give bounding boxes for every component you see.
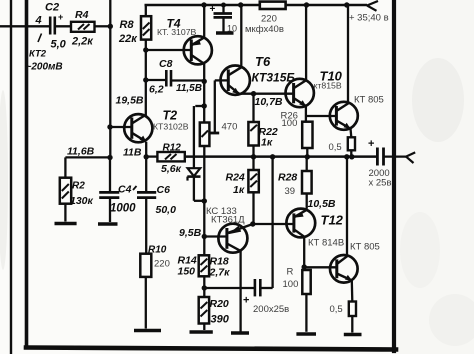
svg-text:Т2: Т2 — [163, 109, 178, 123]
svg-text:0,5: 0,5 — [330, 304, 343, 315]
svg-text:КТ3102В: КТ3102В — [153, 122, 189, 132]
resistor R4 2,2к — [71, 22, 95, 32]
svg-text:КТ 814В: КТ 814В — [308, 238, 344, 249]
junction: rail / R26-R28 — [305, 154, 310, 159]
capacitor 10мкф (rail decoupling) — [214, 5, 233, 32]
svg-text:+ 35;40 в: + 35;40 в — [349, 13, 389, 24]
wire: to T2 base — [110, 126, 132, 128]
wire: T4 base — [146, 49, 192, 51]
svg-text:мкфх40в: мкфх40в — [245, 24, 284, 35]
wire: T6 base with end bar — [210, 80, 228, 133]
resistor R12 5,6к — [157, 152, 184, 161]
svg-text:+: + — [368, 138, 374, 150]
svg-text:Т12: Т12 — [321, 213, 344, 228]
svg-text:С4: С4 — [118, 184, 132, 196]
svg-text:470: 470 — [222, 122, 238, 133]
svg-text:С6: С6 — [157, 184, 171, 196]
junction: rail / bootstrap — [270, 154, 275, 159]
capacitor C6 50,0 — [137, 157, 156, 254]
svg-text:С2: С2 — [45, 2, 59, 14]
wire: T4 collector down to 470 — [203, 63, 205, 122]
svg-text:9,5В: 9,5В — [179, 227, 202, 239]
wire: 470 down through rail to T8 base node — [203, 146, 205, 255]
zener КС133 — [187, 106, 204, 201]
ground: under C4 — [98, 222, 118, 226]
svg-text:10,5В: 10,5В — [308, 198, 336, 210]
frame lines (decorative, unlabeled) — [10, 0, 12, 354]
svg-text:100: 100 — [282, 118, 298, 129]
svg-text:22к: 22к — [118, 33, 138, 45]
capacitor C2 — [50, 17, 55, 35]
transistor КТ805 (upper) — [330, 102, 358, 130]
svg-text:2,7к: 2,7к — [209, 267, 231, 279]
svg-text:R8: R8 — [120, 19, 135, 31]
transistor T12 КТ814В — [286, 209, 315, 238]
junction: zener bottom — [202, 198, 207, 203]
wire: T8 collector to ground — [239, 251, 241, 332]
resistor R14 150 / R18 2,7к — [199, 255, 209, 297]
transistor КТ805 (lower) — [330, 255, 358, 283]
ground: under R2 — [55, 222, 77, 226]
transistor T10 КТ815В — [286, 79, 314, 107]
wire: T4 emitter to rail — [203, 5, 205, 38]
resistor R8 22к — [141, 5, 151, 40]
svg-text:11В: 11В — [123, 147, 142, 159]
junction: R24 / T8-T12 wire — [250, 221, 255, 226]
svg-text:100: 100 — [283, 279, 299, 290]
wire: T6 emitter to T10 base — [239, 93, 294, 95]
svg-text:50,0: 50,0 — [156, 204, 177, 216]
wire: to T12 base — [253, 223, 294, 225]
resistor 0,5 (lower) — [349, 280, 356, 332]
svg-text:КТ 805: КТ 805 — [354, 95, 384, 106]
wire: T2 collector up to R8 — [145, 40, 147, 116]
junction: T2 base — [107, 124, 112, 129]
svg-text:R28: R28 — [278, 172, 297, 184]
wire: T8 base — [204, 235, 227, 237]
resistor R20 390 — [199, 297, 209, 330]
ground: under R100 — [296, 332, 316, 336]
svg-text:1к: 1к — [261, 137, 273, 149]
svg-text:2,2к: 2,2к — [71, 36, 94, 48]
wire: to КТ805 base — [306, 115, 337, 117]
resistor 0,5 (upper) — [348, 128, 355, 156]
ground: under 0,5 — [344, 333, 362, 337]
svg-text:150: 150 — [178, 266, 196, 278]
svg-text:R10: R10 — [148, 245, 167, 256]
junction: base line / R2-C4 node — [107, 155, 112, 160]
ground: under R10 — [134, 329, 161, 333]
junction: input node — [108, 24, 113, 29]
ground: under 10мкф cap — [216, 31, 234, 34]
wire: T6 collector to rail — [240, 5, 242, 67]
junction: T2 emitter / C6 — [144, 154, 149, 159]
svg-text:R24: R24 — [226, 172, 245, 184]
svg-text:0,5: 0,5 — [329, 142, 342, 153]
svg-text:220: 220 — [261, 14, 277, 25]
capacitor 2000х25в (output) — [377, 148, 406, 166]
wire: C2 to R4 — [55, 25, 71, 27]
junction: rail / 0,5 — [349, 154, 354, 159]
junction: rail / T6 collector — [238, 2, 243, 7]
svg-text:R12: R12 — [163, 143, 182, 154]
resistor R2 130к — [60, 157, 71, 221]
capacitor C8 — [146, 70, 204, 87]
junction: rail / collector — [344, 154, 349, 159]
svg-text:+: + — [243, 295, 249, 307]
resistor R24 1к — [248, 157, 258, 224]
junction: rail / T10 collector — [304, 2, 309, 7]
svg-text:11,6В: 11,6В — [67, 146, 95, 158]
junction: rail / 10мкф — [221, 3, 226, 8]
svg-text:390: 390 — [211, 314, 230, 326]
junction: rail / R22-R24 — [251, 154, 256, 159]
wire: bootstrap from rail to 200мкф cap — [271, 157, 273, 288]
svg-text:R4: R4 — [75, 9, 89, 21]
wire: КТ805 collector to rail — [347, 5, 349, 103]
svg-text:+: + — [210, 4, 216, 15]
resistor R26 100 — [302, 122, 312, 157]
svg-text:кт815В: кт815В — [314, 81, 342, 91]
junction: C8 node — [143, 77, 148, 82]
svg-text:КТ361Д: КТ361Д — [211, 215, 245, 226]
svg-text:Т6: Т6 — [255, 54, 271, 69]
transistor T8 КТ361Д — [218, 224, 252, 253]
wire: output rail — [185, 155, 378, 158]
resistor R22 1к — [248, 94, 258, 157]
resistor R10 220 — [140, 254, 151, 329]
junction: T4 collector / C8 — [202, 79, 207, 84]
transistor T2 КТ3102В — [124, 114, 152, 142]
junction: rail / T4 — [201, 2, 206, 7]
ground: under R20 — [190, 330, 213, 334]
junction: T12 collector / R100 — [302, 264, 307, 269]
svg-text:КТ. 3107В: КТ. 3107В — [157, 27, 197, 37]
svg-text:10,7В: 10,7В — [255, 96, 283, 108]
wire: 11,6В node — [65, 156, 110, 158]
svg-text:R20: R20 — [210, 298, 229, 310]
resistor R 100 — [302, 270, 310, 332]
svg-text:5,6к: 5,6к — [161, 163, 182, 175]
svg-text:4: 4 — [35, 15, 42, 27]
svg-text:КТ 805: КТ 805 — [350, 242, 380, 253]
wire: T10 collector to rail — [305, 5, 307, 80]
capacitor 200х25в — [204, 279, 272, 296]
svg-text:5,0: 5,0 — [51, 39, 67, 51]
svg-text:1000: 1000 — [110, 203, 136, 215]
svg-text:R2: R2 — [72, 181, 85, 192]
svg-text:11,5В: 11,5В — [176, 83, 202, 94]
junction: zener tap — [202, 103, 207, 108]
svg-text:220: 220 — [154, 259, 170, 270]
svg-text:130к: 130к — [70, 195, 94, 207]
wire: T12 collector down — [303, 237, 305, 270]
svg-text:КТ2: КТ2 — [29, 49, 47, 60]
svg-text:39: 39 — [285, 186, 296, 197]
ground: T8 collector — [231, 331, 249, 335]
svg-text:~200мВ: ~200мВ — [26, 62, 63, 73]
wire: T2 emitter to R12 — [145, 142, 147, 157]
junction: rail / КТ805 collector — [344, 2, 349, 7]
resistor R28 39 — [302, 157, 312, 209]
transistor T6 КТ315Б — [221, 66, 250, 95]
terminal: +35..40V supply arrow — [367, 1, 378, 11]
resistor 470 — [200, 123, 210, 147]
junction: T6 emitter / R22 — [251, 91, 256, 96]
capacitor C4 1000 — [99, 158, 119, 223]
svg-text:1к: 1к — [233, 184, 245, 196]
svg-text:С8: С8 — [159, 58, 173, 70]
svg-text:19,5В: 19,5В — [116, 95, 144, 107]
wire: T2 base line vertical — [109, 0, 111, 158]
transistor T4 КТ3107В — [184, 36, 212, 64]
junction: R14-R20 / 200мкф — [202, 285, 207, 290]
junction: T4 base node — [143, 47, 148, 52]
wire: top supply rail — [145, 4, 261, 7]
wire: input line from left edge — [0, 25, 50, 27]
svg-text:6,2: 6,2 — [149, 84, 164, 96]
wire: КТ805 lower collector to output rail — [346, 157, 348, 256]
svg-text:200х25в: 200х25в — [253, 304, 289, 315]
svg-text:+: + — [58, 12, 63, 22]
junction: T8 base node — [202, 234, 207, 239]
svg-text:х 25в: х 25в — [369, 178, 392, 189]
resistor 220 мкфх40в (rail box) — [260, 2, 286, 9]
wire: to КТ805 lower base — [304, 266, 337, 268]
terminal: output arrow — [406, 152, 415, 163]
wire: T10 emitter down — [305, 106, 307, 122]
wire: R4 to node — [95, 25, 111, 27]
svg-text:R: R — [287, 267, 294, 278]
